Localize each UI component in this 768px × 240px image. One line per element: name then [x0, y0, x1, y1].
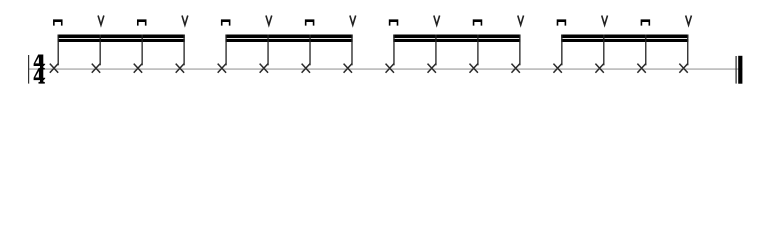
upstroke symbol above note 4 [182, 16, 188, 26]
downstroke symbol above note 9 [389, 19, 399, 25]
x notehead, note 9 (beat 3.1) [386, 64, 394, 73]
x notehead, note 14 (beat 4.2) [595, 64, 603, 73]
time signature 4/4: denominator 4 [34, 69, 46, 84]
barline (start of measure) [28, 55, 30, 84]
x notehead, note 2 (beat 1.2) [92, 64, 100, 73]
downstroke symbol above note 5 [221, 19, 231, 25]
downstroke symbol above note 13 [557, 19, 567, 25]
stem of note 5 [225, 35, 227, 66]
stem of note 2 [99, 35, 101, 66]
stem of note 14 [603, 35, 605, 66]
x notehead, note 6 (beat 2.2) [260, 64, 268, 73]
stem of note 7 [309, 35, 311, 66]
x notehead, note 5 (beat 2.1) [218, 64, 226, 73]
stem of note 11 [477, 35, 479, 66]
beam group 2 (double beam over notes 5-8) [225, 35, 352, 43]
x notehead, note 12 (beat 3.4) [511, 64, 519, 73]
x notehead, note 16 (beat 4.4) [679, 64, 687, 73]
beam group 4 (double beam over notes 13-16) [561, 35, 688, 43]
stem of note 6 [267, 35, 269, 66]
x notehead, note 11 (beat 3.3) [470, 64, 478, 73]
downstroke symbol above note 7 [305, 19, 315, 25]
stem of note 13 [561, 35, 563, 66]
time signature 4/4: numerator 4 [34, 55, 46, 70]
upstroke symbol above note 8 [350, 16, 356, 26]
stem of note 9 [393, 35, 395, 66]
downstroke symbol above note 1 [53, 19, 63, 25]
upstroke symbol above note 2 [98, 16, 104, 26]
stem of note 12 [519, 35, 521, 66]
upstroke symbol above note 12 [518, 16, 524, 26]
x notehead, note 7 (beat 2.3) [302, 64, 310, 73]
stem of note 4 [183, 35, 185, 66]
stem of note 1 [57, 35, 59, 66]
stem of note 10 [435, 35, 437, 66]
beam group 3 (double beam over notes 9-12) [393, 35, 520, 43]
x notehead, note 13 (beat 4.1) [553, 64, 561, 73]
x notehead, note 10 (beat 3.2) [428, 64, 436, 73]
stem of note 8 [351, 35, 353, 66]
final barline (thin + thick) [736, 56, 742, 84]
downstroke symbol above note 15 [641, 19, 651, 25]
upstroke symbol above note 14 [602, 16, 608, 26]
upstroke symbol above note 10 [434, 16, 440, 26]
stem of note 16 [687, 35, 689, 66]
staff line [28, 68, 743, 70]
stem of note 3 [141, 35, 143, 66]
downstroke symbol above note 11 [473, 19, 483, 25]
x notehead, note 4 (beat 1.4) [176, 64, 184, 73]
x notehead, note 1 (beat 1.1) [50, 64, 58, 73]
beam group 1 (double beam over notes 1-4) [58, 35, 185, 43]
x notehead, note 3 (beat 1.3) [134, 64, 142, 73]
downstroke symbol above note 3 [137, 19, 147, 25]
x notehead, note 15 (beat 4.3) [637, 64, 645, 73]
upstroke symbol above note 16 [686, 16, 692, 26]
upstroke symbol above note 6 [266, 16, 272, 26]
stem of note 15 [645, 35, 647, 66]
x notehead, note 8 (beat 2.4) [344, 64, 352, 73]
